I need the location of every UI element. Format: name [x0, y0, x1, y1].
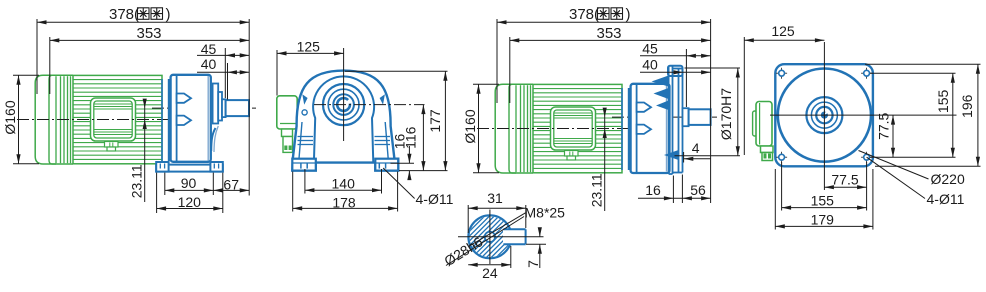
svg-text:77.5: 77.5 — [831, 172, 858, 188]
dim 116 — [422, 105, 424, 171]
svg-text:45: 45 — [642, 41, 658, 57]
output shaft — [689, 109, 711, 125]
svg-text:378(: 378( — [569, 6, 599, 23]
svg-text:56: 56 — [690, 182, 706, 198]
bolt holes 4-dia11 — [776, 72, 787, 74]
output axis centerline — [612, 116, 717, 118]
foot bolt slots — [159, 164, 161, 169]
dim 120 — [157, 208, 223, 210]
flange plate — [668, 66, 683, 76]
dim 45 — [197, 54, 249, 56]
svg-text:7: 7 — [525, 260, 541, 268]
dim 179 — [775, 225, 873, 227]
dim 24 — [468, 264, 511, 266]
dim 378 (brake) overall length — [497, 21, 711, 23]
leader 4-dia11 — [383, 168, 414, 199]
svg-text:Ø160: Ø160 — [462, 109, 478, 143]
dim 125 — [744, 39, 824, 41]
flange circle dia220 — [778, 69, 871, 162]
svg-text:4-Ø11: 4-Ø11 — [927, 191, 965, 207]
svg-text:177: 177 — [427, 109, 443, 133]
crosshair — [458, 236, 544, 238]
clamp tab upper — [177, 94, 191, 103]
dim 4 pilot depth — [684, 158, 711, 160]
arch inner line — [313, 76, 374, 162]
clamp tab upper — [637, 103, 651, 112]
motor M2 (brake motor, side view) — [495, 84, 622, 173]
motor terminal box behind (front view) — [277, 96, 297, 129]
dim 155 bottom — [782, 207, 867, 209]
svg-text:31: 31 — [487, 190, 503, 206]
leg ribs — [298, 136, 314, 138]
svg-text:90: 90 — [181, 175, 197, 191]
svg-text:120: 120 — [178, 194, 202, 210]
output axis centerline — [152, 107, 256, 109]
svg-text:179: 179 — [811, 212, 835, 228]
svg-text:45: 45 — [201, 41, 217, 57]
dim 77.5 right — [892, 115, 894, 157]
dim 178 — [293, 207, 398, 209]
dim 7 keyway — [526, 243, 546, 245]
serration marks — [652, 76, 669, 87]
svg-text:): ) — [626, 6, 631, 23]
svg-text:77.5: 77.5 — [876, 112, 892, 139]
housing lower curve — [211, 128, 215, 151]
gearbox housing — [171, 75, 211, 162]
motor terminal box behind (front) — [753, 111, 757, 136]
svg-text:178: 178 — [332, 194, 356, 210]
svg-text:125: 125 — [771, 23, 795, 39]
svg-text:378(: 378( — [109, 6, 139, 23]
svg-text:40: 40 — [201, 56, 217, 72]
flange pilot ring dia170H7 — [678, 69, 680, 173]
svg-text:125: 125 — [297, 38, 321, 54]
casting cusps — [302, 94, 307, 105]
center rings — [806, 97, 842, 133]
dim 353 — [50, 39, 249, 41]
svg-text:353: 353 — [596, 25, 621, 42]
leader dia28h6 — [446, 217, 524, 266]
output boss — [222, 99, 226, 117]
svg-text:196: 196 — [959, 94, 975, 118]
leader 4-dia11 — [867, 157, 925, 198]
dim 155 right — [952, 73, 954, 157]
output shaft — [226, 100, 249, 116]
cable gland behind — [282, 129, 293, 137]
svg-text:16: 16 — [392, 134, 408, 150]
dim dia160 — [478, 84, 480, 172]
leader dia220 — [859, 151, 929, 180]
clamp tab lower — [177, 116, 191, 125]
leg middle lines — [299, 122, 302, 159]
svg-text:353: 353 — [136, 25, 161, 42]
svg-text:4-Ø11: 4-Ø11 — [416, 191, 454, 207]
output boss circles — [323, 84, 364, 125]
dim 353 — [510, 39, 711, 41]
dim 40 — [197, 71, 249, 73]
svg-text:Ø220: Ø220 — [931, 171, 965, 187]
svg-text:Ø170H7: Ø170H7 — [718, 88, 734, 140]
clamp tab lower — [637, 125, 651, 134]
svg-text:155: 155 — [935, 90, 951, 114]
dim 378 (brake) overall length — [37, 21, 249, 23]
dim 31 — [468, 207, 526, 209]
keyway — [503, 229, 526, 244]
shaft section circle — [468, 215, 511, 258]
svg-text:23.11: 23.11 — [129, 164, 145, 198]
dim 90 — [165, 189, 214, 191]
leader M8*25 — [469, 213, 526, 247]
foot blocks — [292, 159, 316, 171]
motor M1 (brake motor, side view) — [35, 75, 162, 164]
dims 16 and 56 — [638, 197, 711, 199]
svg-text:M8*25: M8*25 — [525, 205, 566, 221]
svg-text:4: 4 — [692, 140, 700, 156]
flange square plate — [775, 64, 873, 166]
output boss — [683, 108, 689, 126]
motor axis centerline — [17, 119, 176, 121]
bearing cap steps — [213, 84, 219, 124]
dim 177 — [444, 71, 446, 170]
dim 16 foot thickness — [408, 146, 410, 163]
svg-text:67: 67 — [223, 176, 239, 192]
dim 125 — [277, 52, 344, 54]
svg-text:40: 40 — [642, 57, 658, 73]
centerlines — [823, 42, 825, 190]
svg-text:140: 140 — [332, 175, 356, 191]
center hole — [485, 232, 495, 242]
dim dia170H7 — [737, 68, 739, 156]
foot bolt slots — [300, 163, 302, 169]
small casting mark on left leg — [302, 110, 307, 115]
mounting foot — [156, 165, 223, 172]
svg-text:23.11: 23.11 — [589, 173, 605, 207]
svg-text:16: 16 — [645, 182, 661, 198]
dim 45 — [640, 55, 711, 57]
dim 23.11 axis offset — [604, 109, 606, 211]
dim 23.11 axis offset — [144, 100, 146, 202]
gearbox arch housing outline — [292, 71, 398, 171]
hatch — [438, 211, 591, 263]
svg-text:Ø160: Ø160 — [2, 100, 18, 134]
dim 196 — [977, 64, 979, 166]
dim 140 — [305, 189, 382, 191]
gearbox adapter rings — [161, 79, 163, 161]
gearbox adapter rings — [621, 88, 623, 170]
motor axis centerline — [477, 128, 636, 130]
dim dia160 — [18, 75, 20, 163]
svg-text:24: 24 — [482, 265, 498, 281]
dim 77.5 bottom — [824, 186, 866, 188]
svg-text:155: 155 — [811, 192, 835, 208]
svg-text:): ) — [166, 6, 171, 23]
centerlines — [343, 48, 345, 141]
gearbox housing — [631, 84, 670, 173]
dim 40 — [640, 71, 711, 73]
dim 67 — [213, 189, 249, 191]
